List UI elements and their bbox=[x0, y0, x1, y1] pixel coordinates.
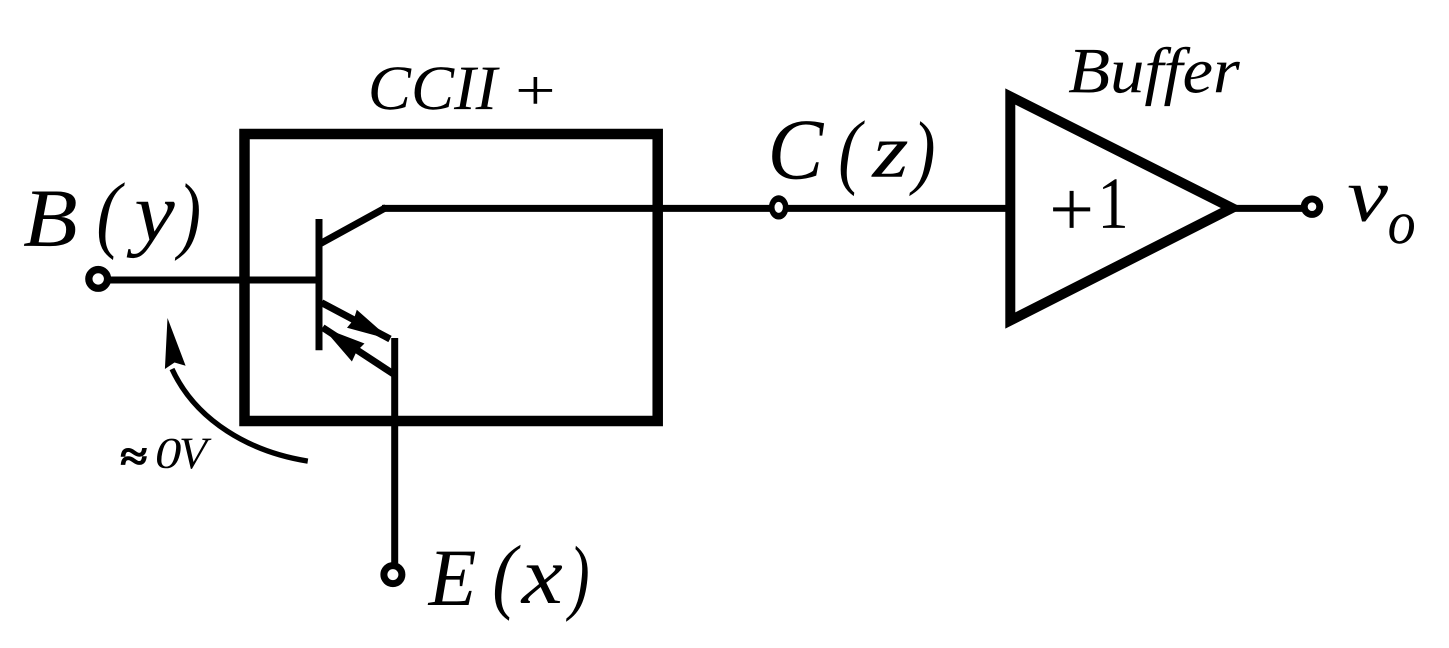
label Buffer bbox=[1069, 47, 1240, 106]
wire collector to buffer bbox=[382, 205, 1010, 212]
wire emitter bbox=[391, 338, 398, 563]
label B (y) bbox=[24, 182, 199, 261]
label +1 bbox=[1053, 179, 1125, 228]
label CCII + bbox=[371, 67, 552, 110]
buffer amplifier U1 bbox=[1010, 97, 1232, 321]
terminal E (x) bbox=[384, 566, 402, 584]
wire buffer output bbox=[1221, 205, 1302, 212]
transistor Q1 collector line bbox=[321, 208, 386, 244]
transistor Q1 base bar bbox=[316, 219, 323, 350]
transistor Q1 emitter arrow inward bbox=[323, 328, 394, 375]
label C (z) bbox=[772, 120, 933, 196]
CCII+ block box bbox=[245, 134, 658, 421]
annotation curved arrow approx 0V bbox=[165, 318, 308, 461]
label vo bbox=[1348, 186, 1414, 244]
label approx 0V bbox=[122, 439, 212, 469]
wire base input bbox=[110, 277, 322, 284]
terminal vo bbox=[1304, 199, 1320, 215]
label E (x) bbox=[428, 545, 588, 622]
node C (z) bbox=[769, 195, 789, 219]
transistor Q1 emitter arrow outward bbox=[322, 303, 391, 340]
terminal B (y) bbox=[89, 270, 108, 289]
